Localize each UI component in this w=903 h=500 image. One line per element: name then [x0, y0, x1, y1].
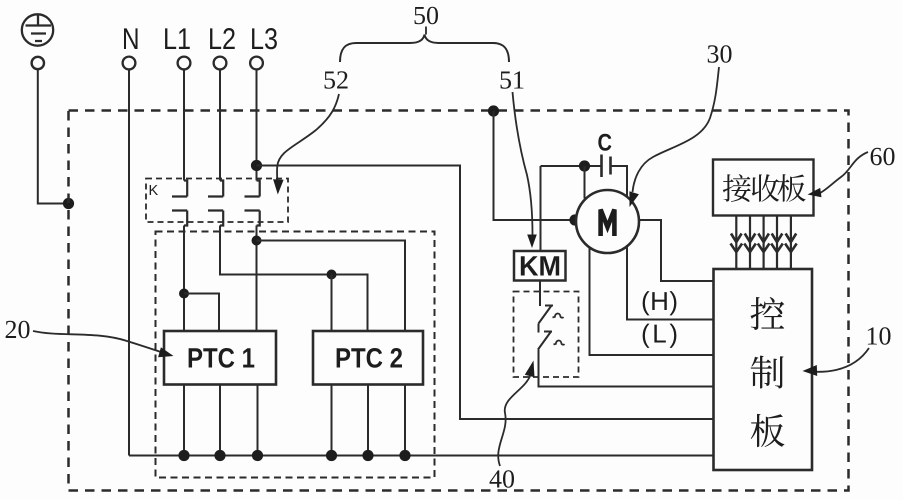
PTC enclosure dashed box [156, 232, 435, 478]
wire L3 to control board [257, 166, 714, 420]
svg-text:30: 30 [707, 40, 733, 69]
leader 60 [820, 152, 868, 193]
svg-text:20: 20 [5, 315, 31, 344]
wire motor H to control board [627, 245, 714, 320]
wire capacitor right to motor [611, 166, 628, 196]
svg-text:K: K [149, 183, 159, 199]
svg-text:40: 40 [489, 465, 515, 494]
svg-text:51: 51 [499, 66, 525, 95]
leader 10 [812, 348, 869, 372]
brace 50 [340, 35, 509, 63]
terminal L1 [178, 57, 191, 70]
svg-text:(H): (H) [641, 286, 678, 316]
wire motor right to control board [639, 220, 714, 281]
contact K pole 1 [172, 181, 187, 226]
signal wire 5 receiver to control [790, 216, 792, 270]
earth symbol [22, 14, 53, 45]
svg-text:60: 60 [870, 142, 896, 171]
signal wire 4 receiver to control [776, 216, 778, 270]
wire PTC pin 4 to bus [331, 385, 333, 456]
wire PTC pin 6 to bus [404, 385, 406, 456]
leader 40 [498, 375, 530, 466]
wire N down to bus [128, 69, 130, 456]
control board label 制 [751, 356, 784, 389]
receiver board label 收 [752, 174, 779, 202]
contactor coil KM box [514, 251, 566, 281]
signal wire 1 receiver to control [735, 216, 737, 270]
junction bus 1 [178, 450, 189, 461]
thermal switch 1 [539, 306, 554, 324]
svg-text:50: 50 [413, 1, 439, 30]
svg-text:KM: KM [519, 251, 561, 282]
wire motor L to control board [590, 247, 714, 355]
wire L3 to PTC1 pin3 [256, 226, 258, 332]
junction earth-to-enclosure [63, 198, 74, 209]
signal wire 2 receiver to control [749, 216, 751, 270]
wire L3 upper [256, 69, 258, 181]
wire PTC pin 5 to bus [367, 385, 369, 456]
junction bus 2 [214, 450, 225, 461]
control board label 控 [751, 297, 785, 330]
contact K pole 2 [208, 181, 223, 226]
svg-text:C: C [598, 130, 613, 157]
motor M circle [576, 190, 639, 253]
wire L2 upper [219, 69, 221, 181]
enclosure dashed border [69, 111, 849, 491]
node L3 tap [251, 160, 262, 171]
earth terminal [32, 57, 44, 69]
bus wire N return [129, 455, 714, 457]
svg-text:L2: L2 [208, 23, 236, 56]
svg-text:52: 52 [323, 66, 349, 95]
wire L1 branch to PTC1 pin2 [184, 294, 219, 332]
svg-text:L3: L3 [250, 23, 278, 56]
terminal L2 [214, 57, 227, 70]
svg-text:PTC 1: PTC 1 [187, 343, 255, 374]
svg-text:(L): (L) [641, 319, 678, 349]
heater PTC2 [313, 331, 423, 385]
wire capacitor riser to KM [540, 166, 542, 251]
node L2 branch [327, 270, 337, 280]
motor M label [601, 210, 615, 237]
thermal protector dashed box [514, 292, 579, 378]
control board box [714, 269, 813, 470]
receiver board label 板 [778, 174, 806, 202]
junction bus 3 [252, 450, 263, 461]
capacitor C plates [602, 155, 611, 178]
leader 52 [277, 94, 339, 180]
signal wire 3 receiver to control [762, 216, 764, 270]
thermal switch 2 [538, 324, 540, 333]
terminal N [123, 57, 136, 70]
junction bus 5 [362, 450, 373, 461]
node capacitor tap [579, 160, 590, 171]
leader 30 [633, 67, 720, 192]
receiver board label 接 [723, 174, 751, 202]
control board label 板 [751, 414, 785, 447]
wire PTC pin 3 to bus [257, 385, 259, 456]
wire L1 to PTC1 [183, 226, 185, 332]
svg-text:N: N [122, 23, 140, 56]
svg-text:10: 10 [866, 322, 892, 351]
node mains tap 51 [488, 105, 499, 116]
wire thermal to control board [539, 350, 714, 387]
node L3 branch [252, 236, 262, 246]
junction bus 6 [399, 450, 410, 461]
junction bus 4 [326, 450, 337, 461]
leader 51 [513, 92, 533, 235]
earth wire [38, 69, 69, 203]
svg-text:L1: L1 [163, 23, 191, 56]
wire KM to thermal switch [539, 281, 541, 307]
wire L2 branch to PTC2 pin1 [331, 275, 333, 332]
leader 20 [33, 331, 164, 353]
wire L1 upper [183, 69, 185, 181]
wire L3 branch to PTC2 pin3 [257, 241, 406, 332]
heater PTC1 [164, 331, 276, 385]
terminal L3 [250, 57, 263, 70]
node L1 branch [179, 289, 189, 299]
contact K pole 3 [245, 181, 260, 226]
svg-text:PTC 2: PTC 2 [335, 343, 403, 374]
wire L2 to PTC2 [220, 226, 368, 332]
wire capacitor left [541, 165, 602, 167]
contactor K box [146, 179, 288, 223]
wire tap to motor top [584, 166, 586, 199]
receiver board box [713, 160, 814, 216]
node motor left [569, 214, 580, 225]
wire tap to motor [494, 111, 576, 220]
wire PTC pin 1 to bus [183, 385, 185, 456]
wire PTC pin 2 to bus [219, 385, 221, 456]
